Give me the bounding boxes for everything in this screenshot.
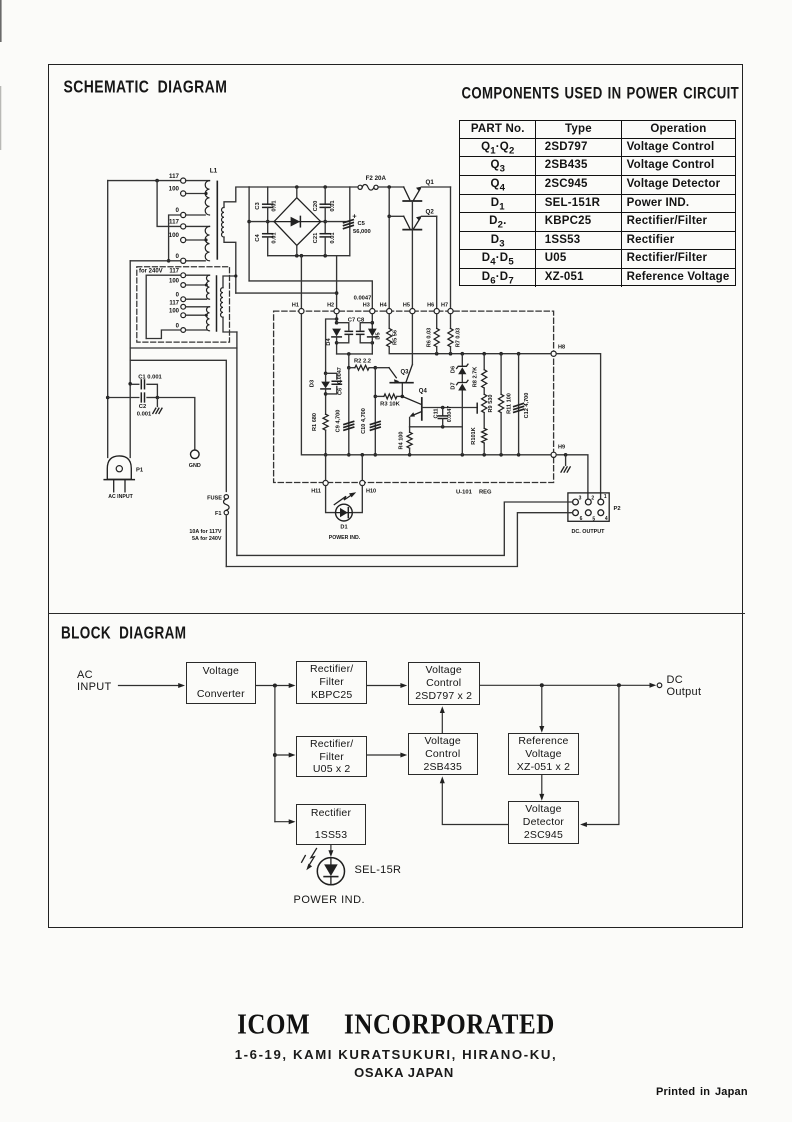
- wire: right AC line down to plug P1: [128, 261, 132, 458]
- resistor R1 680: [323, 414, 328, 456]
- wire: pin 3 feed: [237, 502, 573, 555]
- wire: fuse output rail: [378, 185, 404, 189]
- wire: 240V 117 tap 1 left link: [146, 275, 181, 338]
- wire: H5 column to Q3 collector: [411, 314, 413, 365]
- node: AC line junction (top): [108, 179, 181, 183]
- wire: DC output line: [480, 683, 662, 688]
- label POWER IND.: [294, 894, 366, 906]
- wire: H1 riser from bridge bottom: [300, 256, 302, 309]
- bridge diode symbol: [274, 216, 321, 226]
- wire: secondary return to H2 node: [236, 292, 337, 294]
- block: Reference Voltage XZ-051 x 2: [508, 733, 580, 775]
- wire: pin 6 feed: [226, 513, 572, 567]
- transistor Q3: [375, 365, 413, 397]
- wire: 240V 0 tap bottom link: [146, 330, 181, 339]
- LED D1 (power indicator): [336, 504, 353, 521]
- resistor R10 1K: [482, 428, 487, 455]
- label AC INPUT: [77, 669, 93, 681]
- wire: Q1 emitter rail to H7 riser: [422, 186, 451, 188]
- section divider: [48, 613, 745, 615]
- wire: LED to H10: [352, 486, 362, 513]
- terminal H1: [292, 303, 304, 314]
- arrow: AC INPUT to Voltage Converter: [119, 683, 186, 688]
- fuse F2 20A: [358, 185, 378, 191]
- zener diode D7: [457, 380, 468, 390]
- capacitor C4: [263, 220, 273, 256]
- wire: H4 riser (fuse node down): [387, 187, 391, 309]
- arrow: output line down into Voltage Detector right side: [580, 685, 619, 827]
- outer frame box: [48, 64, 744, 928]
- capacitor C21: [320, 220, 330, 256]
- arrow: to Rectifier/Filter U05: [275, 753, 296, 758]
- 240V tap labels: [169, 269, 180, 330]
- wire: jog to 117V tap 2: [157, 181, 181, 227]
- LED emission bolts: [302, 849, 317, 871]
- wire: 0V tap row to right AC line: [130, 260, 181, 262]
- 240V tap terminals: [181, 273, 186, 333]
- diode D3: [321, 373, 330, 414]
- wire: C9 column top: [347, 354, 351, 370]
- capacitor C5 56,000 (electrolytic marks): [344, 220, 354, 229]
- wire: H2 inner node: [335, 314, 339, 325]
- block: Voltage Detector 2SC945: [508, 801, 580, 844]
- capacitor C9 4,700: [344, 368, 354, 457]
- block: Rectifier/Filter KBPC25: [296, 661, 367, 704]
- LED emission arrow: [334, 492, 356, 504]
- capacitor C2 0.001: [108, 393, 160, 402]
- inductor L1 primary winding 2: [186, 226, 210, 260]
- inductor L1 secondary winding: [222, 207, 224, 237]
- wire: output rail (H4 to H8): [387, 314, 551, 356]
- wire: H10 riser: [361, 455, 363, 481]
- terminal H11: [311, 480, 328, 494]
- wire: H2 riser from bridge bottom: [335, 256, 339, 309]
- wire: bridge box right edge: [349, 187, 351, 256]
- wire: jog to D3 column: [324, 319, 337, 375]
- inductor L1 primary winding 1: [186, 181, 210, 215]
- tap voltage labels: [169, 173, 180, 260]
- wire: 240V 100 tap 2: [186, 314, 208, 317]
- wire: H8 to P2 pin 1: [556, 354, 600, 500]
- arrow: U05 to Voltage Control 2SB435: [367, 753, 407, 758]
- transistor Q2: [389, 216, 421, 230]
- wire: H9 to P2 pin 2: [556, 453, 588, 499]
- label DC Output: [667, 674, 684, 686]
- transformer L1 core: [216, 181, 218, 259]
- block: Voltage Converter: [186, 662, 257, 704]
- terminal H2: [327, 303, 339, 314]
- wire: 240V secondary top stub: [223, 274, 237, 287]
- transistor Q1: [403, 187, 421, 201]
- wire: zener column: [461, 354, 463, 455]
- arrow: to Rectifier 1SS53: [275, 819, 296, 824]
- resistor R9 530: [482, 394, 487, 428]
- arrow: KBPC25 to Voltage Control 2SD797: [367, 683, 407, 688]
- arrow: 2SB435 up into 2SD797: [440, 706, 445, 733]
- resistor R8 2.7K: [482, 354, 487, 395]
- title: COMPONENTS USED IN POWER CIRCUIT: [462, 83, 740, 102]
- arrow: down into Reference Voltage: [539, 685, 544, 733]
- terminal H5: [403, 303, 415, 314]
- wire: fuse F1 lower leg: [225, 516, 227, 567]
- capacitor C12 4,700: [514, 354, 524, 455]
- capacitor C3 (on left edge): [263, 187, 273, 234]
- terminal H8: [551, 345, 565, 357]
- wire: 240V 100 tap 1: [186, 284, 208, 287]
- resistor R7 0.03: [448, 314, 453, 354]
- wire: to GND terminal: [157, 398, 194, 450]
- wire: AC node vertical to H3 feed: [247, 187, 251, 281]
- title: BLOCK DIAGRAM: [61, 623, 186, 642]
- arrow: 1SS53 down to LED: [328, 845, 333, 857]
- wire: fuse F1 feed line: [130, 360, 226, 491]
- LED SEL-15R symbol: [317, 858, 344, 885]
- plug P1 (AC input): [104, 456, 134, 492]
- wire: Q1/Q2 base line to H5: [411, 201, 413, 309]
- block: Rectifier/Filter U05 x 2: [296, 736, 367, 777]
- pin numbers 3 2 1: [579, 494, 607, 501]
- label SEL-15R: [355, 864, 402, 876]
- wire: left AC line down to plug P1: [106, 181, 110, 458]
- 240V winding 2: [186, 307, 210, 331]
- resistor R4 100: [407, 427, 412, 455]
- wire: Q4 emitter: [410, 418, 463, 429]
- page edge scan artifact: [0, 0, 2, 42]
- wire: H11 riser: [325, 455, 327, 481]
- capacitor C6 (parallel D3): [326, 373, 342, 394]
- footer: ICOM INCORPORATED: [0, 1010, 792, 1041]
- wire: distribution drop: [273, 686, 277, 822]
- wire: bridge box bottom rail: [268, 254, 350, 258]
- terminal H4: [380, 303, 392, 314]
- wire: Q4 base line with end bar: [422, 403, 477, 413]
- wire: secondary bottom down: [224, 237, 236, 293]
- transistor Q4: [402, 396, 422, 420]
- wire: 0V tap 1 link: [167, 215, 181, 263]
- capacitor C20 (inner right column): [320, 187, 330, 234]
- fuse F1: [224, 495, 230, 515]
- block: Rectifier 1SS53: [296, 804, 366, 845]
- wire: bottom rail (H1 to H9): [301, 314, 551, 457]
- wire: 100V tap 2 into winding: [186, 238, 208, 241]
- wire: AC stub into diamond left corner: [249, 221, 274, 223]
- wire: AC feed to H3: [249, 281, 372, 309]
- wire: 240V secondary bottom stub: [223, 317, 237, 332]
- bridge rectifier D2 diamond: [274, 187, 321, 256]
- components table: [459, 120, 736, 286]
- connector P2 DC OUTPUT: [568, 493, 609, 521]
- title: SCHEMATIC DIAGRAM: [64, 76, 228, 96]
- transformer L1 tap terminals: [181, 178, 186, 263]
- block: Voltage Control 2SB435: [408, 733, 478, 775]
- capacitor C8 (parallel D5): [357, 323, 373, 343]
- arrow: Voltage Detector to 2SB435: [440, 776, 508, 824]
- ground (line filter): [153, 398, 162, 414]
- terminal GND: [189, 450, 201, 469]
- 240V transformer core: [216, 276, 218, 331]
- arrow: Reference Voltage down to Voltage Detector: [539, 776, 544, 801]
- wire: Q2 emitter rail to H6 riser: [422, 215, 437, 217]
- resistor R6 0.03: [434, 314, 439, 354]
- wire: H3 inner node: [371, 314, 375, 345]
- ground (DC output common): [561, 455, 570, 472]
- capacitor C11 0.0047: [438, 408, 447, 427]
- wire: H7 riser: [450, 187, 452, 309]
- resistor R2 2.2: [349, 365, 377, 370]
- wire: return line to DC output: [130, 332, 237, 555]
- block: Voltage Control 2SD797 x 2: [408, 662, 480, 705]
- wire: H6 riser: [436, 216, 438, 308]
- diode D5: [368, 329, 377, 354]
- wire: 100V tap 1 into winding: [186, 192, 208, 195]
- wire: secondary top to bridge rail: [224, 187, 249, 207]
- capacitor C1 0.001: [131, 380, 157, 398]
- wire: D4/D5 common bottom: [337, 352, 373, 356]
- pin numbers 6 5 4: [580, 516, 608, 523]
- wire: H11 to LED: [326, 486, 336, 513]
- wire: diamond right corner stub: [321, 221, 350, 223]
- arrow: Voltage Converter to Rectifier/Filter KBPC25: [256, 683, 295, 688]
- zener diode D6: [457, 364, 468, 374]
- 240V winding 1: [186, 275, 210, 299]
- terminal H6: [427, 303, 439, 314]
- diode D4: [332, 329, 341, 354]
- resistor R11 100: [499, 354, 504, 455]
- terminal H10: [360, 480, 376, 494]
- capacitor C10 4,700: [371, 368, 381, 457]
- capacitor C7 (parallel D4): [337, 323, 353, 343]
- dashed box: regulator U-101: [274, 311, 554, 482]
- dashed box: for 240V option: [137, 267, 230, 342]
- wire: DC top rail from secondary to fuse F2: [249, 185, 358, 189]
- terminal H3: [363, 303, 375, 314]
- resistor R3 10K: [375, 394, 404, 399]
- terminal H9: [551, 445, 565, 458]
- terminal H7: [441, 303, 453, 314]
- 240V secondary winding: [221, 288, 223, 318]
